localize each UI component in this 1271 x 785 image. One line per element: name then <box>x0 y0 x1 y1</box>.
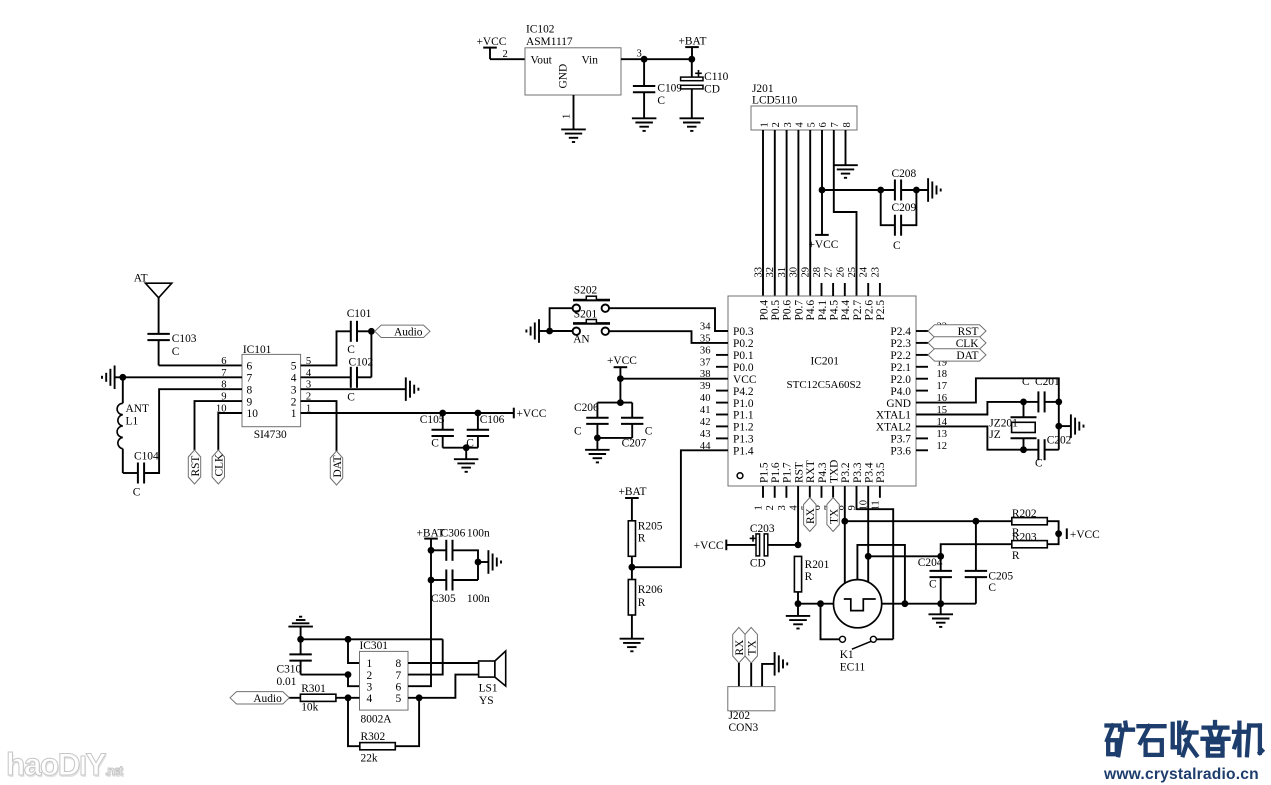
node <box>902 600 909 607</box>
wire encoder common <box>857 545 905 604</box>
svg-text:VCC: VCC <box>733 374 756 386</box>
svg-text:P4.2: P4.2 <box>733 386 754 398</box>
svg-text:C103: C103 <box>172 333 197 345</box>
wire <box>443 447 478 449</box>
capacitor C202 <box>1037 439 1039 460</box>
IC201 bottom stubs <box>762 486 764 498</box>
svg-text:5: 5 <box>396 693 402 705</box>
svg-text:4: 4 <box>367 693 373 705</box>
svg-text:12: 12 <box>937 441 948 452</box>
svg-text:Audio: Audio <box>253 693 282 705</box>
wire J201 pin7 to IC201 P2.7 <box>834 130 857 296</box>
wire to pin1 <box>348 639 360 663</box>
svg-text:EC11: EC11 <box>840 662 866 674</box>
svg-text:32: 32 <box>765 267 776 278</box>
svg-text:RXT: RXT <box>805 460 817 483</box>
svg-text:P3.3: P3.3 <box>852 462 864 483</box>
svg-text:K1: K1 <box>840 649 854 661</box>
wire J201 pin8 to ground <box>845 130 847 165</box>
svg-text:C110: C110 <box>704 71 729 83</box>
wire pin7 to ground net <box>408 639 443 674</box>
wire encoder right terminal net <box>882 603 976 605</box>
svg-text:C: C <box>657 95 665 107</box>
svg-text:P2.1: P2.1 <box>890 362 911 374</box>
svg-text:R301: R301 <box>301 683 326 695</box>
svg-text:39: 39 <box>700 381 711 392</box>
svg-text:6: 6 <box>221 356 226 367</box>
svg-text:P2.2: P2.2 <box>890 350 911 362</box>
wire <box>115 376 123 378</box>
capacitor C207 <box>631 403 633 418</box>
port Audio (input) <box>230 692 289 704</box>
mcu IC201 STC12C5A60S2 <box>728 296 916 486</box>
svg-text:7: 7 <box>247 373 253 385</box>
wire <box>596 438 598 450</box>
svg-text:ASM1117: ASM1117 <box>526 36 573 48</box>
wire <box>976 520 1012 522</box>
wire pin5 to speaker <box>408 675 479 698</box>
svg-text:RST: RST <box>793 462 805 483</box>
svg-text:C: C <box>929 579 937 591</box>
capacitor C109 <box>643 59 645 86</box>
node <box>1055 530 1062 537</box>
svg-text:C: C <box>645 426 653 438</box>
node <box>463 444 470 451</box>
svg-text:P4.4: P4.4 <box>840 300 852 321</box>
capacitor C205 <box>975 521 977 571</box>
port Audio <box>375 325 430 337</box>
node <box>877 187 884 194</box>
svg-text:1: 1 <box>759 122 770 127</box>
svg-text:29: 29 <box>800 267 811 278</box>
wire <box>797 604 799 616</box>
svg-text:C: C <box>1022 376 1030 388</box>
wire to ground <box>762 664 775 687</box>
svg-text:STC12C5A60S2: STC12C5A60S2 <box>787 379 862 391</box>
svg-text:C: C <box>133 487 141 499</box>
ground <box>786 615 810 617</box>
node <box>1020 399 1027 406</box>
svg-text:1: 1 <box>291 408 297 420</box>
node <box>297 636 304 643</box>
ground <box>538 319 540 343</box>
ground <box>833 164 858 166</box>
svg-text:100n: 100n <box>467 528 490 540</box>
connector J202 CON3 <box>728 687 775 711</box>
capacitor C305 <box>431 579 446 581</box>
svg-text:R206: R206 <box>638 584 663 596</box>
ground <box>114 366 116 390</box>
wire <box>395 698 419 746</box>
port DAT (vertical) <box>330 451 342 485</box>
port CLK <box>916 342 928 344</box>
capacitor C208 <box>894 180 896 201</box>
node <box>641 56 648 63</box>
capacitor C106 <box>477 413 479 430</box>
svg-text:2: 2 <box>771 122 782 127</box>
svg-text:P1.4: P1.4 <box>733 446 754 458</box>
svg-text:C105: C105 <box>420 414 445 426</box>
svg-text:P4.0: P4.0 <box>890 386 911 398</box>
wire right vertical <box>1058 402 1060 450</box>
wire <box>336 697 360 699</box>
svg-text:P1.2: P1.2 <box>733 422 754 434</box>
svg-text:C: C <box>347 344 355 356</box>
wire <box>941 544 1012 556</box>
wire pin9 to RST <box>195 401 243 450</box>
wire P3.4 to encoder <box>867 486 869 582</box>
svg-text:P0.4: P0.4 <box>758 300 770 321</box>
wire <box>940 604 942 615</box>
svg-text:LCD5110: LCD5110 <box>752 95 797 107</box>
capacitor C206 <box>596 403 598 418</box>
wire ground node <box>301 638 443 640</box>
node <box>345 671 352 678</box>
encoder K1 EC11 body <box>834 580 882 628</box>
svg-text:R: R <box>805 571 813 583</box>
svg-text:P4.6: P4.6 <box>805 300 817 321</box>
node <box>617 399 624 406</box>
svg-text:DAT: DAT <box>332 455 344 477</box>
wire J201 pin3 to IC201 P0.6 <box>786 130 788 296</box>
svg-text:4: 4 <box>795 122 806 128</box>
capacitor C103 <box>147 333 169 335</box>
wire <box>631 556 633 579</box>
wire pin3 to ground <box>301 388 406 390</box>
svg-text:7: 7 <box>830 122 841 127</box>
wire <box>738 663 740 687</box>
svg-text:P2.0: P2.0 <box>890 374 911 386</box>
svg-text:XTAL1: XTAL1 <box>876 410 911 422</box>
wire C206/C207 bottom <box>597 437 632 439</box>
node <box>973 518 980 525</box>
svg-text:R: R <box>638 533 646 545</box>
wire <box>357 376 371 378</box>
svg-text:36: 36 <box>700 345 711 356</box>
svg-text:C102: C102 <box>349 357 374 369</box>
wire <box>550 330 573 332</box>
wire <box>619 379 621 403</box>
IC201 top stubs <box>821 283 823 296</box>
node <box>594 435 601 442</box>
wire J201 pin6 to +VCC <box>821 130 823 235</box>
wire <box>1047 534 1058 545</box>
crystal JZ201 <box>1023 402 1025 417</box>
svg-text:8: 8 <box>247 384 253 396</box>
wire <box>1059 425 1071 427</box>
svg-text:0.01: 0.01 <box>277 676 297 688</box>
wire GND pin16 <box>916 378 1059 402</box>
svg-text:10: 10 <box>247 408 259 420</box>
node <box>1020 446 1027 453</box>
wire <box>631 615 633 639</box>
wire <box>901 189 928 191</box>
wire S201 to P0.2 <box>609 331 728 343</box>
wire <box>797 592 799 604</box>
ground <box>632 117 657 119</box>
node <box>475 559 482 566</box>
svg-text:www.crystalradio.cn: www.crystalradio.cn <box>1103 766 1259 783</box>
ground <box>454 458 479 460</box>
svg-text:R205: R205 <box>638 521 663 533</box>
node <box>428 547 435 554</box>
svg-text:YS: YS <box>479 695 494 707</box>
svg-text:JZ201: JZ201 <box>989 418 1018 430</box>
svg-text:C203: C203 <box>750 523 775 535</box>
svg-text:R: R <box>638 597 646 609</box>
svg-text:P3.7: P3.7 <box>890 434 911 446</box>
ground <box>561 128 586 130</box>
wire divider to P1.4 <box>632 450 728 567</box>
node <box>937 553 944 560</box>
svg-text:2: 2 <box>503 49 508 60</box>
svg-text:C: C <box>893 240 901 252</box>
svg-text:TXD: TXD <box>828 460 840 483</box>
ground <box>405 377 407 401</box>
ground <box>1070 414 1072 438</box>
svg-text:5: 5 <box>291 361 297 373</box>
wire to pin3 <box>348 675 360 687</box>
svg-text:P0.3: P0.3 <box>733 326 754 338</box>
svg-text:C: C <box>172 346 180 358</box>
svg-text:C: C <box>574 426 582 438</box>
node <box>119 374 126 381</box>
svg-text:8: 8 <box>842 122 853 127</box>
svg-text:1: 1 <box>754 505 765 510</box>
node <box>841 518 848 525</box>
svg-text:3: 3 <box>783 122 794 127</box>
wire <box>159 364 242 366</box>
svg-text:42: 42 <box>700 417 711 428</box>
svg-text:P4.3: P4.3 <box>817 462 829 483</box>
svg-text:6: 6 <box>396 681 402 693</box>
wire <box>370 331 372 377</box>
svg-text:3: 3 <box>367 681 373 693</box>
svg-text:R201: R201 <box>805 559 830 571</box>
wire pin8 to speaker <box>408 662 479 664</box>
port TX (vertical) <box>745 627 757 663</box>
power +VCC <box>513 408 515 419</box>
svg-text:26: 26 <box>835 267 846 278</box>
wire +VCC to IC201 VCC pin38 <box>620 378 728 380</box>
svg-text:C104: C104 <box>134 451 159 463</box>
svg-text:C205: C205 <box>988 571 1013 583</box>
svg-text:J201: J201 <box>752 83 774 95</box>
svg-text:2: 2 <box>291 396 297 408</box>
svg-text:P0.2: P0.2 <box>733 338 754 350</box>
inductor L1 ANT <box>122 377 124 403</box>
svg-text:R202: R202 <box>1012 508 1037 520</box>
svg-text:+VCC: +VCC <box>477 36 507 48</box>
svg-text:C206: C206 <box>574 402 599 414</box>
capacitor C105 <box>442 413 444 430</box>
svg-text:CD: CD <box>750 558 766 570</box>
wire RST pin4 down <box>797 486 799 545</box>
svg-text:7: 7 <box>396 670 402 682</box>
watermark crystalradio logo (hand-drawn CJK strokes) <box>1107 723 1134 756</box>
resistor R201 <box>794 556 801 592</box>
svg-text:+VCC: +VCC <box>1070 529 1100 541</box>
svg-text:2: 2 <box>765 505 776 510</box>
node <box>795 542 802 549</box>
svg-text:24: 24 <box>859 266 870 277</box>
ground <box>585 449 610 451</box>
port TX (P3.1/TXD) <box>832 486 834 498</box>
wire <box>465 448 467 460</box>
resistor R205 <box>628 521 635 557</box>
capacitor C209 parallel loop <box>881 190 895 225</box>
wire pin10 to CLK <box>218 413 242 450</box>
node <box>546 328 553 335</box>
node <box>345 636 352 643</box>
wire <box>430 550 432 580</box>
speaker LS1 YS <box>479 661 495 677</box>
capacitor C310 <box>300 639 302 654</box>
wire pin4 to C102 <box>301 376 351 378</box>
svg-text:10k: 10k <box>301 702 318 714</box>
svg-text:8002A: 8002A <box>361 714 393 726</box>
svg-text:4: 4 <box>291 373 297 385</box>
ground <box>927 178 929 202</box>
resistor R302 <box>360 743 396 750</box>
wire J201 pin4 to IC201 P0.7 <box>797 130 799 296</box>
svg-text:P0.7: P0.7 <box>793 300 805 321</box>
svg-text:C109: C109 <box>657 83 682 95</box>
svg-text:TX: TX <box>828 508 840 524</box>
svg-text:S201: S201 <box>574 309 598 321</box>
svg-text:IC101: IC101 <box>243 344 272 356</box>
wire R302 feedback <box>348 698 360 746</box>
ground <box>620 638 645 640</box>
node <box>819 187 826 194</box>
node <box>817 600 824 607</box>
svg-text:C310: C310 <box>277 664 302 676</box>
node <box>629 564 636 571</box>
wire pin1 to +VCC <box>301 412 514 414</box>
node <box>795 600 802 607</box>
svg-text:P2.5: P2.5 <box>875 300 887 321</box>
wire <box>452 550 478 580</box>
wire J201 pin5 to IC201 P4.6 <box>809 130 811 296</box>
wire <box>1047 521 1058 534</box>
node <box>475 410 482 417</box>
svg-text:34: 34 <box>700 322 711 333</box>
svg-text:6: 6 <box>247 361 253 373</box>
svg-text:R: R <box>1012 550 1020 562</box>
svg-text:RX: RX <box>734 639 746 656</box>
port RST <box>916 330 928 332</box>
wire <box>301 674 348 676</box>
wire P3.3 to switch <box>857 486 894 639</box>
svg-text:R203: R203 <box>1012 532 1037 544</box>
power +VCC <box>1066 528 1068 539</box>
svg-text:P0.5: P0.5 <box>770 300 782 321</box>
wire <box>768 544 798 546</box>
node <box>345 694 352 701</box>
svg-text:1: 1 <box>367 658 373 670</box>
amplifier IC301 8002A <box>360 651 409 710</box>
wire R202 row <box>845 520 976 522</box>
port DAT <box>916 354 928 356</box>
port RX (P3.0/RXT) <box>809 486 811 498</box>
svg-text:+VCC: +VCC <box>694 540 724 552</box>
wire K1 right contact <box>877 638 894 640</box>
wire <box>550 308 573 331</box>
svg-text:P2.4: P2.4 <box>890 326 911 338</box>
svg-text:P1.7: P1.7 <box>782 462 794 483</box>
ground (inverted) <box>288 626 313 628</box>
wire S202 to P0.3 <box>609 308 728 331</box>
wire <box>357 330 371 332</box>
svg-text:SI4730: SI4730 <box>254 429 287 441</box>
wire pin6 to +BAT <box>408 580 431 686</box>
wire <box>750 663 752 687</box>
wire XTAL2 pin14 <box>916 426 1024 449</box>
node <box>865 553 872 560</box>
svg-text:9: 9 <box>247 396 253 408</box>
svg-text:P0.6: P0.6 <box>782 300 794 321</box>
wire pin7 to ground/L1 <box>123 376 242 378</box>
svg-text:R302: R302 <box>361 731 386 743</box>
svg-text:C209: C209 <box>892 202 917 214</box>
wire <box>1024 449 1039 451</box>
svg-text:P1.6: P1.6 <box>770 462 782 483</box>
svg-text:JZ: JZ <box>989 429 1000 441</box>
svg-text:1: 1 <box>562 114 573 119</box>
svg-text:C306: C306 <box>441 528 466 540</box>
pin1 indicator <box>737 473 743 479</box>
svg-text:28: 28 <box>812 267 823 278</box>
svg-text:+VCC: +VCC <box>517 408 547 420</box>
resistor R203 <box>1012 541 1048 548</box>
capacitor C104 <box>137 463 139 484</box>
wire R203 row <box>868 555 941 557</box>
svg-text:2: 2 <box>367 670 373 682</box>
svg-text:13: 13 <box>937 429 948 440</box>
svg-text:P2.6: P2.6 <box>864 300 876 321</box>
svg-text:18: 18 <box>937 369 948 380</box>
svg-text:3: 3 <box>777 505 788 510</box>
svg-text:P3.5: P3.5 <box>875 462 887 483</box>
svg-text:C: C <box>988 582 996 594</box>
wire <box>452 579 478 581</box>
ground <box>680 117 705 119</box>
wire C208 net <box>822 189 895 191</box>
svg-text:Vin: Vin <box>582 55 599 67</box>
svg-text:RST: RST <box>190 456 202 477</box>
svg-text:Vout: Vout <box>531 55 553 67</box>
svg-text:P0.1: P0.1 <box>733 350 754 362</box>
resistor R202 <box>1012 518 1048 525</box>
capacitor C203 (electrolytic) <box>756 534 760 556</box>
svg-text:C: C <box>431 438 439 450</box>
node <box>368 328 375 335</box>
resistor R206 <box>628 580 635 616</box>
node <box>913 187 920 194</box>
capacitor C201 <box>1037 391 1039 412</box>
svg-text:C: C <box>347 392 355 404</box>
svg-text:C101: C101 <box>347 308 372 320</box>
svg-text:P1.1: P1.1 <box>733 410 754 422</box>
svg-text:C207: C207 <box>622 438 647 450</box>
wire encoder left terminal <box>798 603 834 605</box>
svg-text:31: 31 <box>777 267 788 278</box>
power +VCC <box>815 234 829 236</box>
port CLK (vertical) <box>212 450 224 484</box>
svg-text:P2.3: P2.3 <box>890 338 911 350</box>
wire C206/C207 top <box>597 402 632 404</box>
node <box>688 56 695 63</box>
